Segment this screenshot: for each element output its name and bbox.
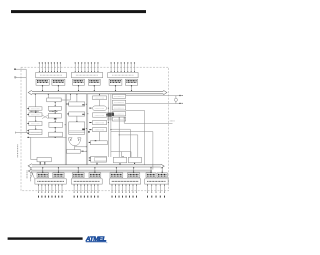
- spi box: [93, 128, 107, 132]
- port A drivers box: [71, 73, 102, 78]
- usart bus stub: [96, 162, 97, 165]
- bottom left pin labels: [27, 171, 31, 182]
- rail junction dots: [65, 104, 112, 152]
- alu funnel: [68, 138, 81, 146]
- XTAL1 line: [126, 95, 183, 96]
- interrupt unit box: [93, 113, 107, 117]
- stack column taps: [119, 118, 138, 158]
- spi lower box: [113, 157, 126, 165]
- port E drivers box: [35, 179, 66, 184]
- port D pins: [112, 184, 137, 198]
- stack column dark label: [112, 113, 114, 116]
- general registers tall box: [69, 122, 85, 134]
- instruction decoder box: [29, 130, 42, 135]
- alu output line: [75, 146, 87, 150]
- sram box: [48, 94, 71, 111]
- xyz connector: [76, 116, 77, 122]
- mcu status box: [112, 112, 125, 116]
- port C bus connectors: [115, 85, 132, 91]
- instruction decoder inner line: [29, 131, 42, 133]
- eeprom box: [93, 120, 107, 124]
- io control connectors: [40, 162, 46, 165]
- status register box: [49, 132, 63, 137]
- port A bus connectors: [78, 85, 95, 91]
- watchdog timer box: [112, 106, 125, 110]
- instruction register box: [29, 122, 42, 126]
- io control box: [31, 137, 52, 161]
- lower data bus upper: [28, 164, 164, 169]
- program flash box: [29, 113, 42, 116]
- direct addressing cross: [42, 115, 48, 119]
- port C drivers box: [108, 73, 138, 78]
- program counter box: [29, 107, 42, 110]
- usart box: [89, 156, 107, 162]
- column4 taps: [89, 108, 108, 131]
- x register box: [67, 102, 84, 106]
- port B pins: [74, 184, 99, 198]
- port D drivers box: [109, 179, 140, 184]
- internal bus rail B: [86, 94, 88, 165]
- timing and control box: [112, 100, 125, 104]
- bus drop to x register: [76, 94, 77, 102]
- alu box: [49, 122, 63, 127]
- column2 connectors: [55, 102, 56, 132]
- mcu box drop: [99, 94, 100, 106]
- column1 label smudge: [30, 110, 39, 112]
- port E pins: [38, 184, 62, 198]
- left rail taps: [27, 108, 28, 134]
- port F bus connectors: [42, 85, 59, 91]
- timer counter stadium: [93, 106, 107, 111]
- chip dashed border: [21, 67, 169, 191]
- port F drivers box: [36, 73, 67, 78]
- sram label smudge: [49, 111, 57, 113]
- column1 connectors: [35, 110, 36, 129]
- footer rule: [8, 237, 83, 239]
- control lines: [27, 137, 67, 138]
- interrupt select box: [112, 117, 125, 121]
- port B data register boxes: [72, 173, 100, 178]
- wide peripheral box: [89, 141, 108, 145]
- port F pins: [39, 62, 61, 72]
- port E bus connectors: [42, 167, 59, 173]
- Atmel logo: [85, 236, 108, 243]
- lower data bus lower: [28, 169, 152, 173]
- crystal symbol: [174, 96, 177, 104]
- port C data register boxes: [109, 79, 138, 85]
- port D bus connectors: [116, 167, 134, 173]
- port A data register boxes: [73, 79, 101, 85]
- port B bus connectors: [78, 167, 96, 173]
- RESET pin: [16, 132, 29, 134]
- oscillator box: [112, 94, 125, 98]
- port B drivers box: [71, 179, 102, 184]
- nested routing lines: [111, 111, 153, 170]
- y register box: [67, 112, 84, 116]
- port C pins: [111, 62, 135, 72]
- port G pins: [147, 184, 165, 198]
- bus drop to program counter: [35, 94, 36, 107]
- XTAL2 line: [126, 103, 183, 104]
- lower peripheral bridge: [111, 152, 131, 158]
- internal bus rail C: [107, 94, 112, 157]
- port G bus connectors: [150, 167, 162, 173]
- twi lower box: [128, 157, 141, 164]
- left supply rail: [25, 69, 27, 132]
- port G drivers box: [145, 179, 168, 184]
- VCC pin: [14, 69, 26, 70]
- bus Y split: [30, 168, 35, 179]
- port D data register boxes: [110, 173, 140, 178]
- port A pins: [75, 62, 99, 72]
- upper 8-bit data bus: [28, 90, 167, 95]
- general purpose registers box: [48, 114, 61, 120]
- column4 lower link: [88, 131, 100, 141]
- internal bus rail A: [65, 94, 66, 165]
- stack pointer box: [47, 94, 62, 102]
- mcu control register box: [93, 96, 107, 100]
- GND pin: [14, 76, 26, 78]
- top header rule: [11, 10, 146, 13]
- status register box lower: [66, 150, 86, 154]
- control exit line: [124, 118, 175, 123]
- port E data register boxes: [37, 173, 64, 178]
- port F data register boxes: [36, 79, 65, 85]
- port G data register boxes: [146, 173, 167, 178]
- left vertical pin label: [17, 145, 19, 159]
